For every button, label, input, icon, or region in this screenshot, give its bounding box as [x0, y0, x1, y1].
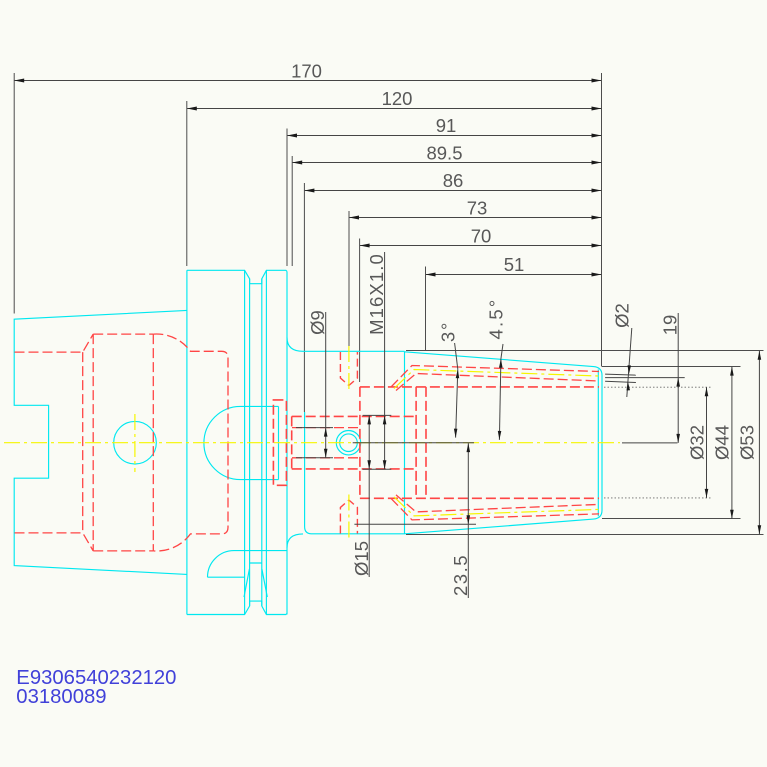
- dimension D9: [307, 310, 328, 458]
- extension line D53 top: [406, 350, 764, 352]
- svg-text:4.5°: 4.5°: [486, 298, 507, 340]
- drive slot section shelf: [208, 551, 288, 578]
- flange outline with V-groove: [187, 270, 287, 614]
- hub hidden box: [273, 400, 286, 485]
- tick line M16 bottom: [363, 468, 392, 470]
- collet nut cone outline: [405, 351, 603, 533]
- svg-text:73: 73: [467, 198, 488, 219]
- drive hole centerline: [134, 414, 136, 472]
- svg-text:M16X1.0: M16X1.0: [366, 253, 387, 335]
- drive slot tower: [244, 563, 267, 597]
- svg-text:19: 19: [659, 315, 680, 336]
- dimension 91: [287, 115, 602, 136]
- dimension D44: [712, 367, 734, 519]
- cross hole centerline bottom: [348, 495, 350, 540]
- body cylinder top edge: [303, 350, 405, 352]
- dimension M16X1.0: [366, 252, 387, 469]
- svg-text:Ø44: Ø44: [712, 425, 733, 460]
- dimension 89.5: [292, 143, 601, 164]
- centerline datum segment 23.5: [353, 442, 474, 444]
- svg-text:89.5: 89.5: [426, 143, 462, 164]
- dimension 4.5 deg: [486, 298, 507, 440]
- slot reference line 19: [605, 377, 685, 379]
- svg-text:91: 91: [436, 115, 457, 136]
- collet nut chamfer line: [597, 370, 599, 517]
- extension line D44 top: [602, 366, 741, 368]
- extension line 86: [303, 183, 305, 412]
- extension line right datum: [601, 73, 603, 367]
- centerline datum segment 19: [622, 442, 678, 444]
- svg-text:Ø9: Ø9: [307, 310, 328, 335]
- svg-text:Ø2: Ø2: [612, 303, 633, 328]
- svg-text:Ø53: Ø53: [737, 425, 758, 460]
- gripper dome in flange: [204, 406, 279, 479]
- flange V-groove projected circle lines: [245, 271, 267, 615]
- collet taper hidden bottom: [391, 495, 599, 520]
- slot edge line upper: [605, 374, 636, 375]
- drive hole circle in shank: [114, 421, 157, 464]
- collet taper hidden top: [391, 366, 599, 391]
- flange front face: [286, 271, 288, 614]
- svg-text:170: 170: [291, 60, 322, 81]
- extension line D53 bottom: [406, 534, 764, 536]
- extension line 51: [425, 267, 427, 351]
- svg-text:03180089: 03180089: [16, 686, 106, 708]
- svg-text:51: 51: [504, 254, 525, 275]
- dimension D15: [351, 415, 372, 577]
- cross hole top hidden: [340, 352, 357, 386]
- extension line D44 bottom: [602, 518, 741, 520]
- svg-text:3°: 3°: [438, 321, 459, 342]
- dimension 120: [187, 88, 602, 109]
- tick line 23.5: [354, 523, 476, 525]
- coolant tube circles: [336, 431, 360, 455]
- cavity arc hidden: [153, 334, 228, 551]
- neck fillet bottom: [287, 534, 303, 548]
- shank bore hidden lines: [15, 334, 154, 551]
- dimension 170: [14, 60, 601, 81]
- svg-text:86: 86: [443, 170, 464, 191]
- extension line 73: [348, 211, 350, 347]
- dimension 19: [659, 313, 680, 443]
- body cylinder bottom edge: [312, 533, 405, 535]
- svg-text:120: 120: [382, 88, 413, 109]
- main centerline: [4, 442, 620, 444]
- svg-text:Ø15: Ø15: [351, 541, 372, 576]
- slot edge line lower: [605, 381, 636, 382]
- dimension D32: [687, 387, 709, 498]
- thread bore M16 hidden: [292, 416, 416, 469]
- collet bore box hidden: [360, 387, 599, 498]
- dimension 3 deg: [438, 321, 460, 438]
- dimension 23.5: [450, 443, 471, 598]
- dimension D53: [737, 351, 762, 534]
- extension line 120: [186, 101, 188, 266]
- neck fillet top: [287, 338, 303, 352]
- extension line D32 top: [604, 386, 712, 388]
- tick line D9 top: [296, 427, 333, 429]
- tick line D9 bottom: [296, 457, 333, 459]
- HSK shank outline: [14, 310, 187, 574]
- dimension 51: [426, 254, 602, 275]
- tick line M16 top: [363, 414, 392, 416]
- cross hole centerline top: [348, 346, 350, 391]
- svg-text:70: 70: [471, 225, 492, 246]
- collet taper centerline bottom: [394, 497, 599, 516]
- extension line 89.5: [291, 156, 293, 266]
- svg-text:23.5: 23.5: [450, 554, 471, 596]
- dimension 73: [349, 198, 602, 219]
- extension line D32 bottom: [604, 497, 712, 499]
- dimension 70: [360, 225, 602, 246]
- svg-text:Ø32: Ø32: [687, 425, 708, 460]
- cross hole bottom hidden: [340, 500, 357, 534]
- dimension D2 leader: [612, 303, 633, 397]
- extension line 91: [286, 129, 288, 267]
- hub face lower: [305, 412, 312, 534]
- collet taper centerline top: [394, 370, 599, 389]
- extension line left 170: [13, 73, 15, 314]
- dimension 86: [304, 170, 601, 191]
- extension line 70: [359, 239, 361, 383]
- pilot bore hidden: [292, 428, 360, 458]
